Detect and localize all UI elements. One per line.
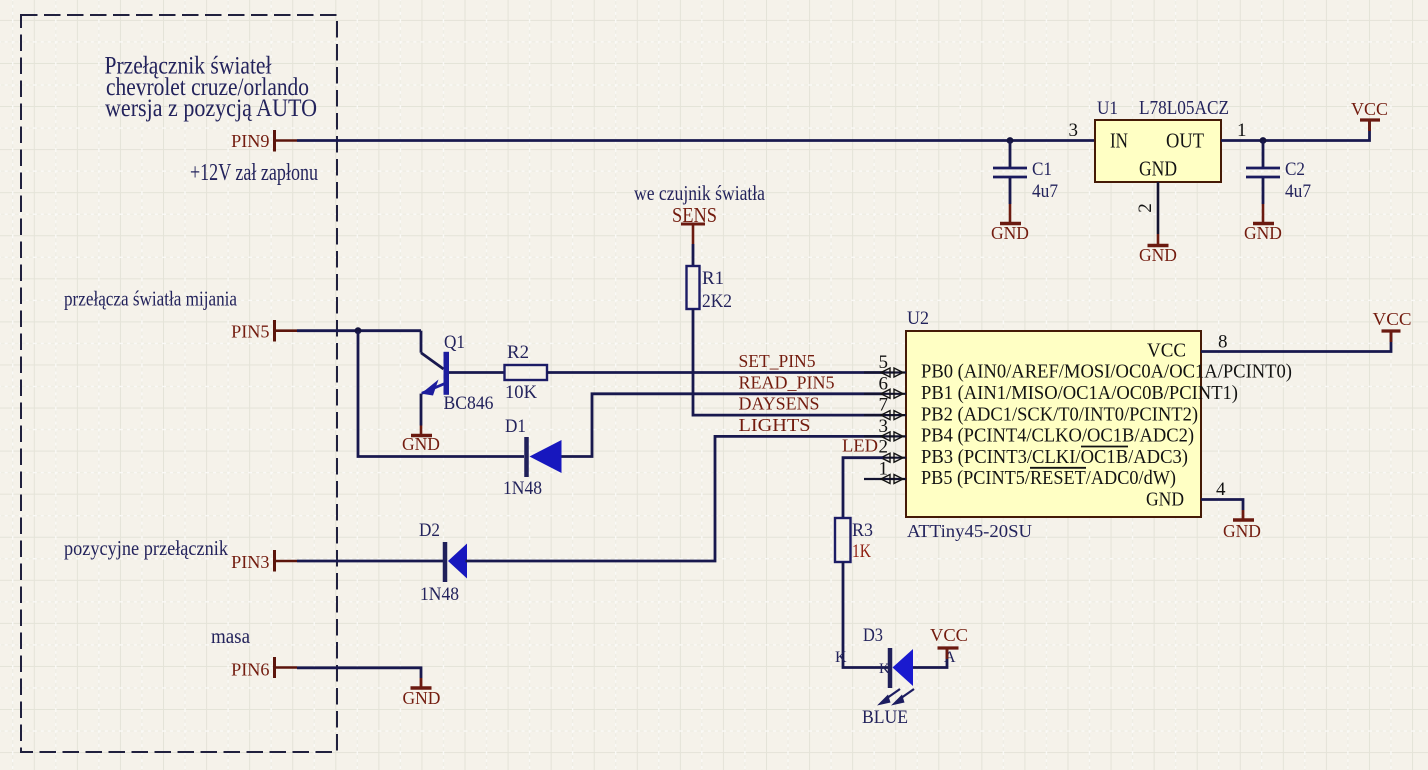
wire Q1 base to R2 xyxy=(449,371,505,374)
dashed boundary box (connector block outline) xyxy=(21,15,337,752)
svg-text:GND: GND xyxy=(991,223,1029,243)
svg-text:L78L05ACZ: L78L05ACZ xyxy=(1139,97,1229,119)
wire PIN9 rail to U1 IN xyxy=(297,139,1095,142)
power VCC (U2 pin8) xyxy=(1373,309,1412,342)
svg-text:SET_PIN5: SET_PIN5 xyxy=(739,351,816,371)
svg-text:IN: IN xyxy=(1110,129,1128,153)
svg-text:D1: D1 xyxy=(505,416,526,437)
svg-text:GND: GND xyxy=(403,688,441,708)
svg-text:1N48: 1N48 xyxy=(503,478,542,499)
junction on PIN5 wire xyxy=(355,327,362,334)
net label LIGHTS xyxy=(739,415,811,435)
svg-text:8: 8 xyxy=(1218,332,1228,353)
ground GND (PIN6) xyxy=(403,678,441,708)
svg-text:PB4 (PCINT4/CLKO/OC1B/ADC2): PB4 (PCINT4/CLKO/OC1B/ADC2) xyxy=(921,425,1194,447)
wire PIN6 to GND xyxy=(297,668,421,678)
svg-text:GND: GND xyxy=(1139,245,1177,265)
svg-text:LIGHTS: LIGHTS xyxy=(739,415,811,435)
svg-text:+12V zał zapłonu: +12V zał zapłonu xyxy=(190,160,318,186)
svg-text:PB1 (AIN1/MISO/OC1A/OC0B/PCINT: PB1 (AIN1/MISO/OC1A/OC0B/PCINT1) xyxy=(921,382,1238,404)
pin 3 (U2 PB4) xyxy=(864,416,906,441)
svg-text:C2: C2 xyxy=(1285,159,1305,180)
svg-text:VCC: VCC xyxy=(1351,99,1388,119)
pin 2 (U1 GND) xyxy=(1135,182,1158,234)
svg-text:4u7: 4u7 xyxy=(1285,181,1311,202)
svg-text:PIN6: PIN6 xyxy=(231,660,269,680)
pin 3 (U1 IN) xyxy=(1069,120,1079,141)
wire R1 to pin7 (DAYSENS net) xyxy=(693,309,883,415)
junction at C2 xyxy=(1260,137,1267,144)
ground GND (Q1 emitter) xyxy=(402,426,440,455)
wire PIN5 to Q1 collector corner xyxy=(297,329,421,332)
ground GND (C2) xyxy=(1244,204,1282,243)
svg-text:ATTiny45-20SU: ATTiny45-20SU xyxy=(907,521,1032,541)
svg-text:5: 5 xyxy=(879,352,889,373)
wire SENS to R1 xyxy=(692,244,695,266)
svg-text:we czujnik światła: we czujnik światła xyxy=(634,181,765,205)
svg-text:GND: GND xyxy=(1244,223,1282,243)
resistor R1 xyxy=(687,266,733,312)
label BLUE xyxy=(862,707,908,728)
label przelacza swiatla mijania xyxy=(64,287,237,311)
pin 6 (U2 PB1) xyxy=(864,373,906,398)
IC U2 ATTiny45-20SU xyxy=(906,308,1292,541)
svg-text:GND: GND xyxy=(1223,521,1261,541)
port SENS xyxy=(672,203,717,244)
svg-text:7: 7 xyxy=(879,395,889,416)
svg-text:PB0 (AIN0/AREF/MOSI/OC0A/OC1A/: PB0 (AIN0/AREF/MOSI/OC0A/OC1A/PCINT0) xyxy=(921,361,1292,383)
resistor R3 xyxy=(835,518,873,562)
port PIN3 xyxy=(231,550,297,572)
svg-text:C1: C1 xyxy=(1032,159,1052,180)
power VCC (D3 anode) xyxy=(930,625,968,659)
svg-text:R2: R2 xyxy=(507,342,529,363)
svg-text:OUT: OUT xyxy=(1166,129,1204,153)
wire PIN3 to D2 xyxy=(297,560,443,563)
svg-text:1K: 1K xyxy=(852,541,871,562)
svg-text:U1: U1 xyxy=(1097,98,1118,119)
transistor Q1 BC846 xyxy=(421,331,494,426)
op-amp U1 regulator L78L05ACZ xyxy=(1095,97,1229,182)
svg-text:D3: D3 xyxy=(863,625,883,646)
svg-text:4: 4 xyxy=(1216,479,1226,500)
svg-text:1: 1 xyxy=(879,459,889,480)
LED D3 xyxy=(835,625,956,688)
svg-text:BC846: BC846 xyxy=(444,393,494,414)
port PIN9 xyxy=(231,130,297,152)
net label DAYSENS xyxy=(739,394,820,414)
svg-text:2K2: 2K2 xyxy=(702,291,732,312)
LED emission arrows xyxy=(877,689,914,706)
svg-text:BLUE: BLUE xyxy=(862,707,908,728)
ground GND (U2 pin4) xyxy=(1223,510,1261,541)
wire D3 anode to VCC xyxy=(913,649,947,668)
title text block xyxy=(105,53,318,123)
wire R3 to D3 xyxy=(843,562,888,668)
svg-text:GND: GND xyxy=(402,434,440,454)
svg-text:PB5 (PCINT5/RESET/ADC0/dW): PB5 (PCINT5/RESET/ADC0/dW) xyxy=(921,467,1176,489)
svg-text:2: 2 xyxy=(1135,203,1156,213)
svg-text:masa: masa xyxy=(211,624,250,648)
svg-text:U2: U2 xyxy=(907,308,929,329)
svg-text:VCC: VCC xyxy=(1147,340,1186,362)
svg-text:3: 3 xyxy=(879,416,889,437)
pin 1 (U2 PB5) xyxy=(864,459,906,484)
pin 8 (U2 VCC) wire to VCC xyxy=(1201,332,1391,353)
svg-text:6: 6 xyxy=(879,373,889,394)
svg-text:K: K xyxy=(835,649,847,666)
capacitor C2 xyxy=(1246,141,1311,205)
ground GND (C1) xyxy=(991,204,1029,243)
svg-text:K: K xyxy=(879,661,890,677)
pin 5 (U2 PB0) xyxy=(864,352,906,377)
net label READ_PIN5 xyxy=(739,372,835,392)
svg-text:GND: GND xyxy=(1146,489,1184,511)
resistor R2 xyxy=(505,342,548,403)
svg-text:PIN5: PIN5 xyxy=(231,322,269,342)
svg-text:PIN3: PIN3 xyxy=(231,552,269,572)
wire D1 anode to pin6 (READ_PIN5 net) xyxy=(562,394,884,457)
diode D1 1N48 xyxy=(503,416,562,499)
svg-text:1N48: 1N48 xyxy=(420,584,459,605)
svg-text:VCC: VCC xyxy=(1373,309,1412,329)
svg-text:GND: GND xyxy=(1139,157,1177,181)
wire PIN5 branch down to D1 xyxy=(358,331,524,457)
diode D2 1N48 xyxy=(419,520,467,605)
svg-text:R1: R1 xyxy=(702,268,724,289)
pin 7 (U2 PB2) xyxy=(864,395,906,420)
svg-text:VCC: VCC xyxy=(930,625,968,645)
port PIN6 xyxy=(231,657,297,680)
pin 4 (U2 GND) wire xyxy=(1201,479,1243,510)
svg-text:4u7: 4u7 xyxy=(1032,181,1058,202)
pin 1 (U1 OUT) xyxy=(1237,120,1247,141)
svg-text:PB2 (ADC1/SCK/T0/INT0/PCINT2): PB2 (ADC1/SCK/T0/INT0/PCINT2) xyxy=(921,403,1198,425)
svg-text:LED: LED xyxy=(842,436,878,456)
svg-text:pozycyjne przełącznik: pozycyjne przełącznik xyxy=(64,536,228,560)
svg-text:10K: 10K xyxy=(505,382,537,403)
wire U1 OUT to VCC xyxy=(1221,121,1370,141)
label we czujnik swiatla xyxy=(634,181,765,205)
label masa xyxy=(211,624,250,648)
svg-text:przełącza światła mijania: przełącza światła mijania xyxy=(64,287,237,311)
svg-text:PIN9: PIN9 xyxy=(231,131,269,151)
svg-text:READ_PIN5: READ_PIN5 xyxy=(739,372,835,392)
wire pin2 to R3 (LED net) xyxy=(843,458,883,518)
svg-text:2: 2 xyxy=(879,437,889,458)
junction at C1 xyxy=(1007,137,1014,144)
svg-text:R3: R3 xyxy=(852,520,873,541)
svg-text:wersja z pozycją AUTO: wersja z pozycją AUTO xyxy=(105,95,317,122)
label pozycyjne przelacznik xyxy=(64,536,228,560)
port PIN5 xyxy=(231,320,297,342)
svg-text:DAYSENS: DAYSENS xyxy=(739,394,820,414)
power VCC (top right) xyxy=(1351,99,1388,131)
svg-text:D2: D2 xyxy=(419,520,440,541)
net label SET_PIN5 xyxy=(739,351,816,371)
wire D2 anode to pin3 (LIGHTS net) xyxy=(466,436,884,561)
capacitor C1 xyxy=(993,141,1058,205)
svg-text:Q1: Q1 xyxy=(444,332,465,353)
wire R2 to pin5 (SET_PIN5 net) xyxy=(547,371,883,374)
label +12V zal zaplonu xyxy=(190,160,318,186)
net label LED xyxy=(842,436,878,456)
pin 2 (U2 PB3) xyxy=(864,437,906,463)
ground GND (U1 pin2) xyxy=(1139,234,1177,265)
svg-text:3: 3 xyxy=(1069,120,1079,141)
svg-text:1: 1 xyxy=(1237,120,1247,141)
svg-text:PB3 (PCINT3/CLKI/OC1B/ADC3): PB3 (PCINT3/CLKI/OC1B/ADC3) xyxy=(921,446,1188,468)
